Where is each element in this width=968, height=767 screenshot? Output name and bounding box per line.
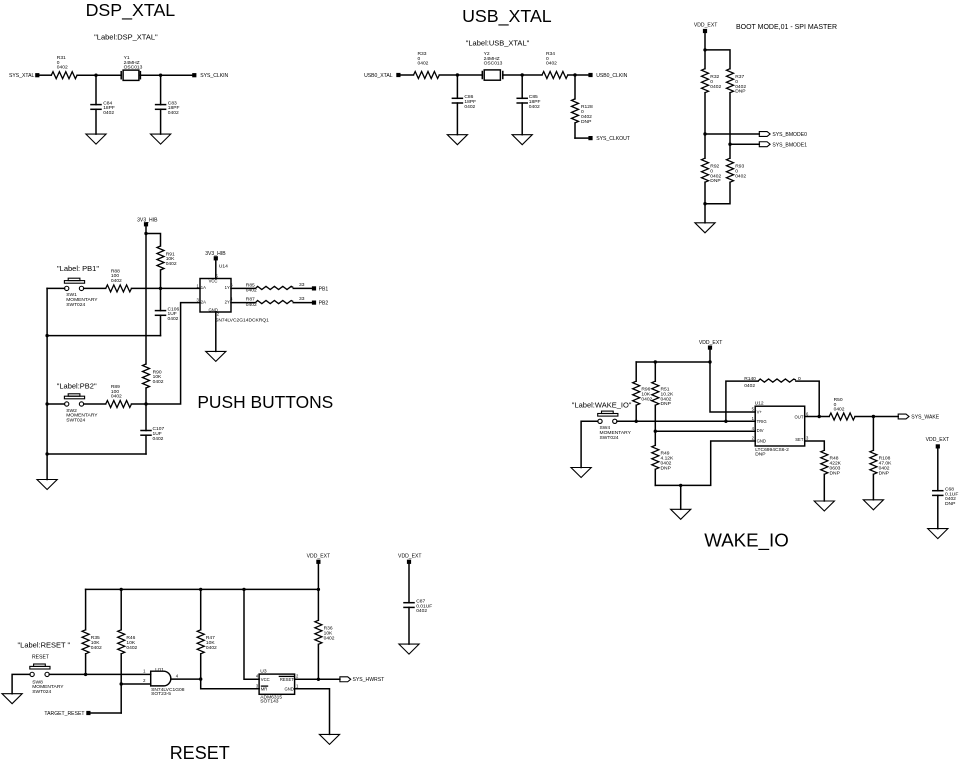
pin SYS_BMODE0 [759, 132, 770, 137]
resistor R108 [872, 417, 874, 451]
ground [151, 134, 171, 144]
wire [215, 260, 217, 278]
wire [84, 287, 106, 289]
svg-text:SYS_XTAL: SYS_XTAL [9, 73, 35, 79]
ground [671, 509, 691, 519]
wire [146, 234, 161, 247]
svg-text:"Label:WAKE_IO": "Label:WAKE_IO" [572, 400, 632, 409]
node SYS_CLKOUT [588, 136, 592, 140]
svg-text:33: 33 [299, 296, 305, 302]
wire [47, 287, 64, 289]
ground [928, 529, 948, 539]
svg-text:2: 2 [296, 674, 299, 679]
capacitor C87 [408, 564, 410, 603]
resistor R49 [654, 431, 656, 445]
node N junction [144, 402, 147, 405]
svg-text:SOT23-5: SOT23-5 [151, 691, 171, 697]
resistor R89 [106, 401, 132, 408]
wire [855, 416, 898, 418]
node U junction [679, 484, 682, 487]
svg-text:VCC: VCC [261, 677, 270, 682]
svg-text:PUSH BUTTONS: PUSH BUTTONS [197, 392, 333, 412]
wire gate output [171, 678, 201, 680]
node F junction [703, 48, 706, 51]
wire [77, 74, 121, 76]
ground [2, 694, 22, 704]
wire [317, 564, 319, 620]
svg-text:1Y: 1Y [225, 285, 230, 290]
svg-text:U12: U12 [755, 401, 764, 407]
node SYS_CLKIN [192, 73, 196, 77]
node PB2 [312, 301, 316, 305]
wire [636, 361, 710, 363]
ground [863, 500, 883, 510]
svg-text:SET: SET [795, 437, 804, 442]
capacitor C85 [521, 75, 523, 98]
resistor R47 [200, 589, 202, 629]
capacitor C86 [456, 75, 458, 98]
wire [705, 50, 730, 69]
node Z junction [242, 588, 245, 591]
node K junction [159, 287, 162, 290]
svg-text:USB0_CLKIN: USB0_CLKIN [596, 73, 627, 79]
svg-text:SOT143: SOT143 [260, 699, 278, 705]
svg-text:0402: 0402 [464, 104, 475, 110]
wire [705, 133, 759, 135]
svg-text:3: 3 [197, 298, 200, 303]
node L junction [45, 334, 48, 337]
node AE junction [317, 678, 320, 681]
wire [293, 287, 312, 289]
wire VCC feed [244, 589, 259, 679]
wire [49, 673, 150, 675]
svg-text:WAKE_IO: WAKE_IO [704, 530, 788, 552]
node TARGET_RESET [86, 711, 90, 715]
wire top rail [86, 588, 319, 590]
svg-text:6: 6 [230, 283, 233, 288]
node V junction [818, 415, 821, 418]
svg-text:0402: 0402 [111, 394, 122, 400]
node Y junction [199, 588, 202, 591]
svg-text:1: 1 [296, 683, 299, 688]
wire [581, 421, 598, 467]
ground [206, 351, 226, 361]
svg-text:0402: 0402 [546, 61, 557, 67]
wire [12, 674, 30, 693]
svg-text:3: 3 [806, 435, 809, 440]
svg-text:"Label:PB2": "Label:PB2" [57, 382, 97, 391]
wire [568, 74, 589, 76]
resistor R51 [654, 362, 656, 381]
svg-text:SYS_BMODE1: SYS_BMODE1 [772, 142, 807, 148]
svg-text:0402: 0402 [416, 608, 427, 614]
node C junction [456, 73, 459, 76]
wire [47, 453, 146, 455]
svg-text:SYS_BMODE0: SYS_BMODE0 [772, 132, 807, 138]
svg-text:1: 1 [143, 668, 146, 673]
ground [37, 480, 57, 490]
transistor U3 ADM6315 [259, 674, 295, 694]
node PB1 [312, 286, 316, 290]
node AA junction [317, 588, 320, 591]
resistor R96 [635, 362, 637, 381]
svg-text:VDD_EXT: VDD_EXT [926, 437, 950, 443]
resistor R92 [704, 134, 706, 158]
svg-text:SWT024: SWT024 [600, 435, 619, 441]
svg-text:0402: 0402 [168, 316, 179, 322]
resistor R90 [143, 364, 150, 388]
wire [140, 74, 192, 76]
svg-text:USB_XTAL: USB_XTAL [462, 6, 552, 27]
wire [503, 74, 542, 76]
svg-text:0402: 0402 [153, 379, 164, 385]
svg-text:DNP: DNP [661, 465, 671, 471]
svg-text:5: 5 [752, 407, 755, 412]
svg-text:0402: 0402 [153, 436, 164, 442]
svg-text:SYS_WAKE: SYS_WAKE [911, 414, 939, 420]
svg-text:DNP: DNP [735, 89, 745, 95]
svg-text:R140: R140 [744, 376, 756, 382]
resistor R31 [51, 72, 77, 79]
wire OUT net [805, 416, 830, 418]
svg-text:U14: U14 [219, 263, 228, 269]
resistor R85 [256, 286, 294, 289]
svg-text:PB1: PB1 [319, 286, 329, 292]
svg-text:33: 33 [299, 282, 305, 288]
svg-text:6: 6 [806, 411, 809, 416]
svg-text:0402: 0402 [166, 261, 177, 267]
wire [704, 33, 706, 50]
svg-text:PB2: PB2 [319, 301, 329, 307]
wire RESET out [295, 678, 340, 680]
svg-text:DNP: DNP [830, 470, 840, 476]
capacitor C106 [160, 288, 162, 310]
wire TRIG net [617, 420, 755, 422]
node AB junction [84, 673, 87, 676]
svg-text:SWT024: SWT024 [32, 689, 51, 695]
svg-text:DNP: DNP [661, 401, 671, 407]
crystal Y2 [481, 72, 483, 79]
ground [86, 134, 106, 144]
wire U3 GND [295, 689, 330, 735]
resistor R48 [805, 441, 825, 450]
svg-text:R87: R87 [246, 297, 255, 303]
wire TARGET_RESET stub [91, 712, 122, 714]
svg-text:SYS_CLKIN: SYS_CLKIN [200, 73, 228, 79]
svg-text:RESET: RESET [170, 743, 230, 763]
wire [39, 74, 51, 76]
resistor R35 [85, 589, 87, 629]
svg-text:0402: 0402 [641, 396, 652, 402]
node USB0_CLKIN [588, 73, 592, 77]
wire [575, 137, 588, 139]
svg-text:DNP: DNP [581, 119, 591, 125]
crystal Y1 [120, 72, 122, 79]
wire left rail [46, 288, 48, 479]
svg-text:VCC: VCC [209, 278, 218, 283]
node G junction [703, 132, 706, 135]
wire V+ feed [710, 362, 755, 412]
wire [439, 74, 482, 76]
resistor R128 [574, 75, 576, 99]
op-amp U14 [200, 279, 231, 313]
ground [512, 135, 532, 145]
node J junction [144, 232, 147, 235]
svg-text:"Label:DSP_XTAL": "Label:DSP_XTAL" [94, 32, 158, 41]
svg-text:0402: 0402 [206, 645, 217, 651]
svg-text:2A: 2A [201, 300, 206, 305]
ground [447, 135, 467, 145]
svg-text:0402: 0402 [246, 288, 257, 294]
svg-text:0402: 0402 [103, 110, 114, 116]
node AC junction [120, 682, 123, 685]
svg-text:OSC013: OSC013 [484, 61, 503, 67]
pin SYS_WAKE [898, 414, 909, 419]
svg-text:1: 1 [197, 283, 200, 288]
svg-text:0402: 0402 [126, 645, 137, 651]
svg-text:SWT024: SWT024 [66, 302, 85, 308]
node P junction [708, 360, 711, 363]
svg-text:TARGET_RESET: TARGET_RESET [44, 711, 84, 717]
node B junction [159, 74, 162, 77]
svg-text:"Label:USB_XTAL": "Label:USB_XTAL" [466, 39, 530, 48]
node R junction [635, 420, 638, 423]
capacitor C84 [95, 75, 97, 104]
resistor R91 [157, 246, 164, 270]
svg-text:DNP: DNP [755, 452, 765, 458]
svg-text:2: 2 [143, 678, 146, 683]
svg-text:BOOT MODE,01 - SPI MASTER: BOOT MODE,01 - SPI MASTER [736, 24, 837, 31]
wire [730, 143, 759, 145]
capacitor C83 [160, 75, 162, 104]
svg-text:"Label: PB1": "Label: PB1" [57, 264, 99, 273]
svg-text:OUT: OUT [795, 415, 804, 420]
node M junction [45, 402, 48, 405]
capacitor C68 [937, 449, 939, 491]
wire 3V3 column [145, 234, 147, 365]
node X junction [120, 588, 123, 591]
svg-text:DNP: DNP [710, 178, 720, 184]
node A junction [94, 74, 97, 77]
wire [231, 302, 256, 304]
ground [571, 468, 591, 478]
switch SW1 [64, 281, 84, 284]
capacitor C107 [145, 404, 147, 431]
switch SW2 [64, 396, 84, 399]
svg-text:3V3_HIB: 3V3_HIB [205, 251, 226, 257]
resistor R46 [120, 589, 122, 629]
svg-text:0: 0 [798, 376, 801, 382]
op-amp U12 LTC6994 [755, 406, 805, 446]
node H junction [728, 143, 731, 146]
resistor R93 [729, 144, 731, 158]
svg-text:SYS_CLKOUT: SYS_CLKOUT [596, 136, 630, 142]
wire [680, 485, 682, 509]
pin SYS_BMODE1 [759, 142, 770, 147]
node D junction [521, 73, 524, 76]
svg-text:VDD_EXT: VDD_EXT [694, 22, 718, 28]
svg-text:0402: 0402 [91, 645, 102, 651]
svg-text:1A: 1A [201, 285, 206, 290]
svg-text:GND: GND [284, 686, 293, 691]
svg-text:0402: 0402 [735, 173, 746, 179]
svg-text:OSC013: OSC013 [124, 65, 143, 71]
ground [399, 644, 419, 654]
node T junction [654, 430, 657, 433]
svg-text:0402: 0402 [111, 278, 122, 284]
resistor R87 [256, 301, 294, 304]
svg-text:0402: 0402 [246, 302, 257, 308]
ground [319, 734, 339, 744]
svg-text:VDD_EXT: VDD_EXT [307, 554, 331, 560]
node W junction [872, 415, 875, 418]
svg-text:0402: 0402 [324, 635, 335, 641]
svg-text:0402: 0402 [710, 84, 721, 90]
svg-text:R85: R85 [246, 282, 255, 288]
svg-text:0402: 0402 [834, 407, 845, 413]
resistor R34 [542, 72, 568, 79]
svg-text:GND: GND [757, 439, 766, 444]
svg-text:VDD_EXT: VDD_EXT [398, 554, 422, 560]
wire [132, 303, 201, 404]
wire [704, 204, 706, 223]
wire [201, 679, 259, 689]
svg-text:MR: MR [261, 686, 268, 691]
wire [47, 403, 64, 405]
wire [231, 287, 256, 289]
svg-text:2Y: 2Y [225, 299, 230, 304]
node S junction [724, 420, 727, 423]
svg-text:DNP: DNP [945, 501, 955, 507]
wire U14 GND [215, 312, 217, 351]
resistor R140 [726, 381, 758, 421]
wire GND net [655, 441, 755, 485]
node E junction [573, 73, 576, 76]
node I junction [703, 202, 706, 205]
svg-text:SN74LVC2G14DCKRQ1: SN74LVC2G14DCKRQ1 [215, 317, 269, 323]
svg-text:2: 2 [752, 436, 755, 441]
wire [84, 403, 106, 405]
resistor R36 [315, 620, 322, 644]
resistor R37 [727, 69, 734, 93]
svg-text:DNP: DNP [879, 470, 889, 476]
node Q junction [654, 360, 657, 363]
svg-text:0402: 0402 [57, 65, 68, 71]
svg-text:RESET: RESET [32, 655, 49, 661]
svg-text:4: 4 [176, 673, 179, 678]
svg-text:U11: U11 [155, 667, 164, 673]
switch SW4 [598, 414, 618, 417]
resistor R33 [414, 72, 440, 79]
switch SW8 [30, 666, 50, 669]
svg-text:"Label:RESET ": "Label:RESET " [18, 641, 71, 650]
wire [132, 287, 201, 289]
svg-text:0402: 0402 [529, 104, 540, 110]
svg-text:RESET: RESET [280, 677, 294, 682]
svg-text:1: 1 [752, 416, 755, 421]
node O junction [45, 452, 48, 455]
wire [401, 74, 414, 76]
wire [709, 350, 711, 362]
pin SYS_HWRST [340, 677, 351, 682]
svg-text:0402: 0402 [744, 383, 755, 389]
resistor R32 [704, 50, 706, 69]
svg-text:DIV: DIV [757, 428, 764, 433]
svg-text:0402: 0402 [168, 110, 179, 116]
svg-text:V+: V+ [757, 410, 763, 415]
ground [695, 223, 715, 233]
svg-text:0402: 0402 [418, 61, 429, 67]
svg-text:4: 4 [230, 297, 233, 302]
node AD junction [199, 677, 202, 680]
resistor R88 [106, 285, 132, 292]
wire [47, 335, 160, 337]
wire gate pin2 [121, 683, 151, 685]
wire [293, 302, 312, 304]
svg-text:TRIG: TRIG [757, 419, 767, 424]
op-amp U11 AND gate [151, 671, 171, 686]
svg-text:SWT024: SWT024 [66, 418, 85, 424]
svg-text:VDD_EXT: VDD_EXT [699, 340, 723, 346]
ground [814, 501, 834, 511]
svg-text:U3: U3 [260, 669, 267, 675]
svg-text:4: 4 [752, 426, 755, 431]
svg-text:SYS_HWRST: SYS_HWRST [353, 677, 385, 683]
svg-text:DSP_XTAL: DSP_XTAL [86, 0, 176, 21]
resistor R50 [829, 413, 855, 420]
wire DIV net [655, 430, 755, 432]
svg-text:USB0_XTAL: USB0_XTAL [364, 73, 393, 79]
wire [145, 226, 147, 233]
